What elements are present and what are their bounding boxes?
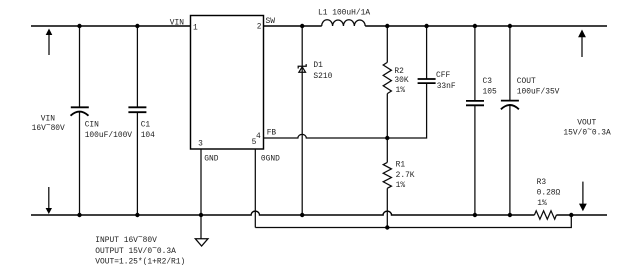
junction dots bottom rail — [77, 213, 81, 217]
junction dot FB node — [385, 136, 389, 140]
svg-text:R2: R2 — [394, 67, 404, 76]
wire bottom rail left of R3 (with hops over 0GND wires) — [31, 211, 534, 215]
capacitor C3 — [466, 26, 497, 215]
svg-text:2: 2 — [257, 23, 262, 32]
capacitor CFF — [418, 26, 456, 91]
svg-text:1%: 1% — [537, 199, 547, 208]
diode D1 column wire — [301, 26, 303, 215]
svg-text:4: 4 — [256, 132, 261, 141]
svg-text:R3: R3 — [537, 178, 547, 187]
capacitor COUT (polarized) — [501, 26, 560, 215]
capacitor C1 column wire — [136, 26, 138, 107]
diode D1 S210 — [298, 61, 332, 81]
node output + arrow — [578, 30, 586, 58]
wire 0GND lower return — [255, 215, 571, 228]
svg-text:OUTPUT 15V/0~0.3A: OUTPUT 15V/0~0.3A — [95, 244, 176, 255]
node VOUT output label — [563, 118, 611, 137]
inductor L1 — [318, 9, 370, 26]
svg-text:CIN: CIN — [85, 120, 99, 129]
svg-text:VIN: VIN — [170, 18, 184, 27]
svg-text:C1: C1 — [141, 120, 151, 129]
svg-text:S210: S210 — [313, 72, 332, 81]
svg-text:100uF/100V: 100uF/100V — [85, 131, 133, 140]
wire top rail left segment (VIN input to pin 1) — [31, 25, 191, 27]
svg-text:5: 5 — [252, 138, 257, 147]
node input - arrow — [46, 187, 52, 214]
svg-text:1: 1 — [193, 24, 198, 33]
svg-text:33nF: 33nF — [437, 82, 456, 91]
wire pin 5 0GND down to lower return wire — [254, 149, 256, 228]
svg-text:FB: FB — [267, 129, 277, 138]
svg-text:L1 100uH/1A: L1 100uH/1A — [318, 9, 370, 18]
svg-text:INPUT 16V~80V: INPUT 16V~80V — [95, 234, 157, 245]
junction dot lower return wire — [385, 225, 389, 229]
svg-text:104: 104 — [141, 131, 155, 140]
resistor R2 — [383, 26, 409, 138]
notes text block — [95, 234, 185, 267]
resistor R1 — [383, 138, 415, 228]
wire bottom rail right of R3 — [556, 214, 607, 216]
svg-text:0.28Ω: 0.28Ω — [537, 189, 561, 198]
capacitor C1 — [128, 107, 155, 140]
node input + arrow — [46, 29, 53, 56]
svg-text:D1: D1 — [313, 61, 323, 70]
node VIN input label — [32, 114, 65, 133]
resistor R3 — [534, 178, 560, 219]
svg-text:SW: SW — [266, 17, 276, 26]
svg-text:3: 3 — [198, 140, 203, 149]
svg-text:30K: 30K — [394, 76, 408, 85]
svg-text:COUT: COUT — [517, 77, 536, 86]
svg-text:0GND: 0GND — [261, 155, 280, 164]
capacitor CIN (polarized) — [71, 107, 133, 140]
wire top rail right segment (pin 2 SW to L1) — [264, 25, 322, 27]
svg-text:GND: GND — [204, 155, 218, 164]
svg-text:2.7K: 2.7K — [396, 171, 415, 180]
svg-text:105: 105 — [483, 87, 497, 96]
svg-text:100uF/35V: 100uF/35V — [517, 87, 560, 96]
ground — [195, 239, 208, 246]
op-amp U1 regulator IC box — [191, 16, 264, 150]
junction dots top rail — [77, 24, 81, 28]
wire pin 3 to ground — [200, 149, 202, 239]
capacitor CIN column wire — [79, 26, 81, 107]
svg-text:1%: 1% — [396, 86, 406, 95]
svg-text:CFF: CFF — [436, 71, 450, 80]
svg-text:R1: R1 — [396, 160, 406, 169]
svg-text:VOUT=1.25*(1+R2/R1): VOUT=1.25*(1+R2/R1) — [95, 258, 185, 267]
node output - arrow — [579, 182, 587, 212]
svg-text:C3: C3 — [483, 77, 493, 86]
wire FB line from pin 4 to CFF column with hop over D1 wire — [264, 83, 427, 138]
svg-text:1%: 1% — [396, 181, 406, 190]
wire top rail right segment (L1 to output) — [365, 25, 607, 27]
